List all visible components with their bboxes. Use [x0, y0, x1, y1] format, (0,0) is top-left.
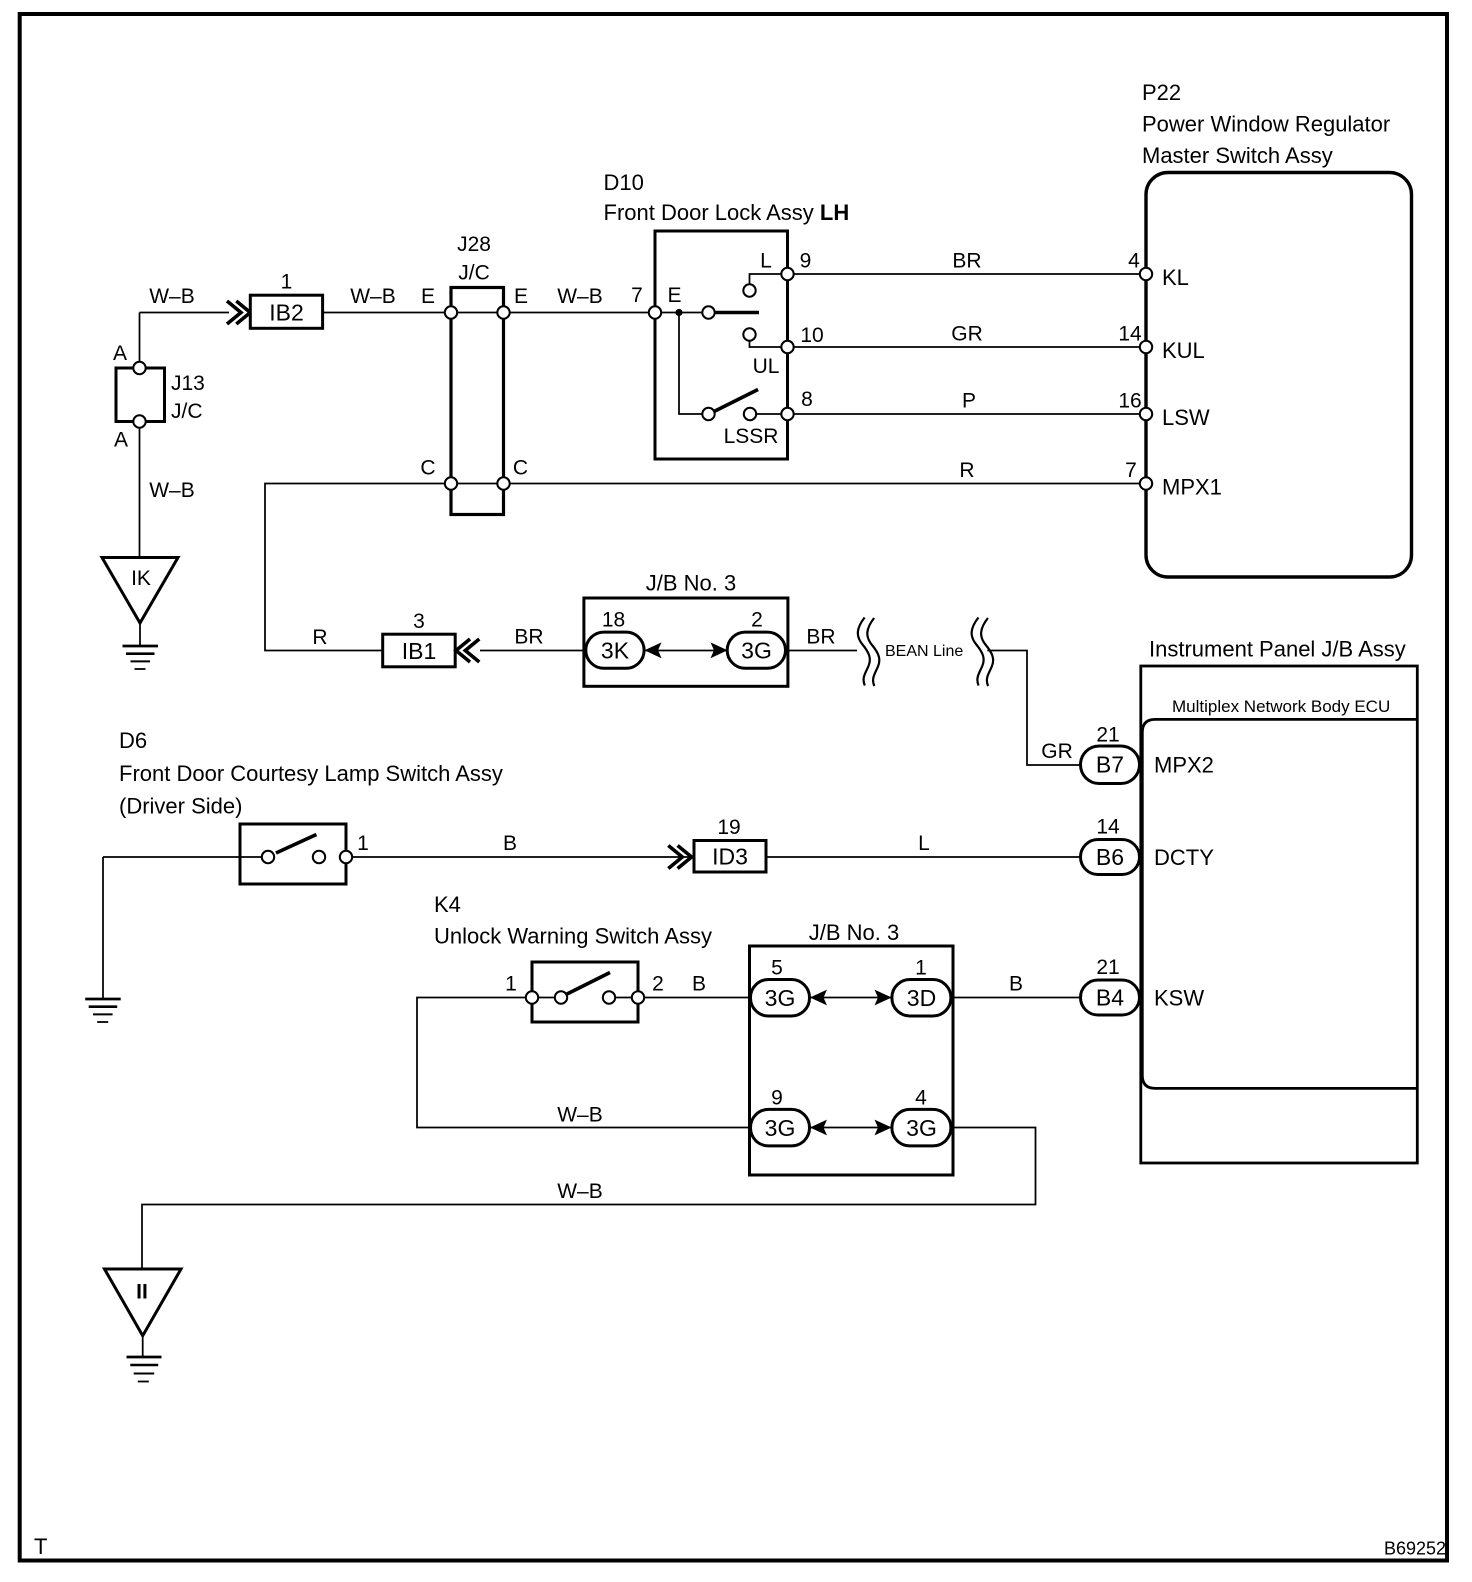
wire between 3K and 3G ovals — [644, 650, 729, 652]
wire L ID3 to B6 DCTY — [766, 856, 1081, 858]
node C left of J28 — [445, 477, 457, 489]
svg-text:2: 2 — [652, 973, 664, 996]
wire C to C through J28 — [451, 483, 504, 485]
terminal oval 3G pin 5 — [751, 980, 810, 1017]
connector ID3 box — [694, 841, 766, 873]
svg-text:E: E — [514, 285, 528, 308]
wire B K4 pin 2 to 3G — [638, 997, 751, 999]
wire E node to switch contact inside D10 — [655, 312, 702, 314]
switch contact right in K4 — [603, 991, 615, 1003]
svg-text:Unlock Warning Switch Assy: Unlock Warning Switch Assy — [434, 924, 712, 949]
svg-text:BR: BR — [514, 626, 543, 649]
component K4 Unlock Warning Switch box — [532, 962, 638, 1022]
wire B 3D to B4 KSW — [951, 997, 1081, 999]
svg-text:1: 1 — [357, 832, 369, 855]
terminal oval 3D pin 1 — [892, 980, 951, 1017]
svg-text:Instrument Panel J/B Assy: Instrument Panel J/B Assy — [1149, 637, 1406, 662]
wire J13 branch down — [139, 313, 141, 369]
svg-text:W–B: W–B — [557, 285, 603, 308]
connector arrow out of IB1 — [456, 639, 479, 662]
wire BR 3G to BEAN break — [786, 650, 858, 652]
ground earth symbol II — [127, 1357, 162, 1382]
svg-text:7: 7 — [631, 284, 643, 307]
wire IK triangle to earth — [139, 623, 141, 646]
wire D6 feed and ground drop — [103, 857, 262, 999]
svg-text:14: 14 — [1096, 816, 1120, 839]
svg-text:R: R — [312, 626, 327, 649]
node A top of J13 — [133, 362, 145, 374]
svg-text:MPX2: MPX2 — [1154, 753, 1214, 778]
node C right of J28 — [497, 477, 509, 489]
connector IB1 box — [383, 634, 456, 667]
svg-text:(Driver Side): (Driver Side) — [119, 794, 242, 819]
node MPX1 on P22 — [1140, 477, 1152, 489]
svg-text:1: 1 — [281, 271, 293, 294]
svg-text:Front Door Lock Assy LH: Front Door Lock Assy LH — [604, 200, 850, 225]
svg-text:21: 21 — [1096, 956, 1119, 979]
svg-text:J/B No. 3: J/B No. 3 — [809, 920, 899, 945]
wire W-B lower 3G to ground II — [142, 1128, 1036, 1270]
svg-text:BR: BR — [952, 250, 981, 273]
svg-text:16: 16 — [1118, 390, 1141, 413]
svg-text:D6: D6 — [119, 728, 147, 753]
svg-text:KSW: KSW — [1154, 986, 1204, 1011]
wire between 3G and 3D ovals — [809, 997, 892, 999]
connector arrow into IB2 — [227, 301, 250, 324]
svg-text:3: 3 — [413, 610, 425, 633]
arrowhead into 3G pin 5 — [810, 990, 827, 1006]
switch LSSR right contact — [744, 408, 756, 420]
wire P pin 8 to P22 LSW — [788, 413, 1147, 415]
switch common contact in D10 — [702, 306, 714, 318]
node pin 7 on D10 — [649, 306, 661, 318]
terminal oval 3G pin 9 — [751, 1109, 810, 1146]
svg-text:BEAN Line: BEAN Line — [885, 643, 963, 660]
svg-text:3G: 3G — [741, 638, 772, 664]
svg-text:IK: IK — [131, 567, 151, 590]
svg-text:GR: GR — [1041, 740, 1073, 763]
svg-text:BR: BR — [806, 626, 835, 649]
svg-text:D10: D10 — [604, 170, 644, 195]
svg-text:8: 8 — [801, 388, 813, 411]
switch contact left in K4 — [555, 991, 567, 1003]
ground triangle II — [105, 1269, 182, 1336]
node pin 9 on D10 — [781, 268, 793, 280]
wire C branch left and down to IB1 — [265, 484, 451, 651]
terminal oval 3G pin 2 — [727, 632, 785, 668]
svg-text:9: 9 — [771, 1087, 783, 1110]
svg-text:4: 4 — [1128, 250, 1140, 273]
arrowhead into 3G — [711, 642, 728, 658]
component J/B No. 3 upper box — [584, 598, 788, 686]
switch contact right in D6 — [313, 851, 325, 863]
wire D6 pin 1 to ID3 — [346, 856, 694, 858]
switch LSSR blade — [714, 390, 758, 412]
terminal oval B7 pin 21 — [1081, 746, 1140, 784]
svg-text:9: 9 — [800, 250, 812, 273]
svg-text:P: P — [962, 390, 976, 413]
svg-text:W–B: W–B — [350, 285, 396, 308]
svg-text:II: II — [136, 1281, 148, 1304]
ground triangle IK — [102, 558, 178, 624]
terminal oval 3K pin 18 — [586, 632, 644, 668]
svg-text:C: C — [513, 457, 528, 480]
svg-text:1: 1 — [915, 957, 927, 980]
switch blade L/UL in D10 — [715, 311, 759, 315]
svg-text:A: A — [114, 429, 128, 452]
wire BEAN line to B7 MPX2 — [987, 651, 1080, 766]
svg-text:Multiplex Network Body ECU: Multiplex Network Body ECU — [1172, 697, 1390, 716]
svg-text:B4: B4 — [1096, 985, 1124, 1011]
junction connector J28 J/C box — [451, 288, 504, 515]
svg-text:J13: J13 — [171, 372, 205, 395]
svg-text:P22: P22 — [1142, 80, 1181, 105]
node pin 10 on D10 — [781, 341, 793, 353]
switch blade in K4 — [567, 973, 610, 995]
terminal oval B4 pin 21 — [1081, 980, 1140, 1015]
ground earth symbol D6 — [85, 999, 121, 1022]
terminal oval 3G pin 4 — [892, 1109, 951, 1146]
svg-text:KL: KL — [1162, 265, 1189, 290]
wire BR IB1 arrows to 3K — [480, 650, 586, 652]
svg-text:B: B — [1009, 973, 1023, 996]
arrowhead into 3G pin 9 — [810, 1120, 827, 1136]
svg-text:3G: 3G — [765, 985, 796, 1011]
svg-text:C: C — [420, 457, 435, 480]
connector IB2 box — [250, 295, 322, 328]
connector arrow into ID3 — [668, 846, 691, 869]
svg-text:3G: 3G — [906, 1115, 937, 1141]
node A bottom of J13 — [133, 415, 145, 427]
svg-text:J/B No. 3: J/B No. 3 — [646, 571, 736, 596]
svg-text:19: 19 — [717, 816, 740, 839]
svg-text:UL: UL — [753, 355, 780, 378]
component D10 Front Door Lock Assy LH box — [655, 231, 788, 459]
node E right of J28 — [497, 306, 509, 318]
component Multiplex Network Body ECU inner box — [1142, 719, 1417, 1088]
component J/B No. 3 lower box — [750, 946, 954, 1175]
switch contact UL in D10 — [743, 328, 755, 340]
svg-text:A: A — [113, 342, 127, 365]
svg-text:LSW: LSW — [1162, 405, 1210, 430]
wire inside K4 box — [538, 997, 632, 999]
switch contact left in D6 — [262, 851, 274, 863]
svg-text:J/C: J/C — [171, 400, 203, 423]
svg-text:E: E — [667, 284, 681, 307]
wire BR pin 9 to P22 KL — [788, 273, 1147, 275]
svg-text:Master Switch Assy: Master Switch Assy — [1142, 143, 1333, 168]
svg-text:Front Door Courtesy Lamp Switc: Front Door Courtesy Lamp Switch Assy — [119, 761, 503, 786]
svg-text:2: 2 — [751, 609, 763, 632]
svg-text:B69252: B69252 — [1384, 1539, 1446, 1559]
node pin 1 on K4 — [526, 991, 538, 1003]
wire contact L up to pin 9 — [750, 274, 788, 284]
connector P22 Power Window Regulator Master Switch Assy box — [1146, 173, 1412, 578]
svg-text:21: 21 — [1096, 724, 1119, 747]
svg-text:4: 4 — [915, 1087, 927, 1110]
svg-text:T: T — [34, 1534, 47, 1559]
svg-text:B: B — [692, 973, 706, 996]
wire K4 pin 1 to lower 3G and W-B run — [417, 998, 751, 1128]
svg-text:W–B: W–B — [149, 479, 195, 502]
arrowhead into 3D pin 1 — [875, 990, 892, 1006]
wire between lower 3G and 3G ovals — [809, 1127, 892, 1129]
svg-text:Power Window Regulator: Power Window Regulator — [1142, 112, 1390, 137]
svg-text:B: B — [503, 832, 517, 855]
wire W-B from arrow to IB2 and J13 drop — [140, 312, 230, 314]
svg-text:IB2: IB2 — [269, 300, 304, 326]
svg-text:W–B: W–B — [149, 285, 195, 308]
junction connector J13 J/C box — [116, 368, 165, 422]
ground earth symbol IK — [123, 646, 159, 669]
svg-text:ID3: ID3 — [712, 844, 748, 870]
svg-text:KUL: KUL — [1162, 338, 1205, 363]
component D6 Front Door Courtesy Lamp Switch box — [240, 824, 346, 884]
node pin 8 on D10 — [781, 408, 793, 420]
node pin 2 on K4 — [632, 991, 644, 1003]
wire II triangle to earth — [142, 1336, 144, 1357]
wire GR pin 10 to P22 KUL — [788, 346, 1147, 348]
node KL on P22 — [1140, 268, 1152, 280]
svg-text:J/C: J/C — [458, 262, 490, 285]
svg-text:3K: 3K — [601, 638, 630, 664]
switch LSSR left contact — [702, 408, 714, 420]
terminal oval B6 pin 14 — [1081, 840, 1140, 875]
svg-text:L: L — [760, 250, 772, 273]
svg-text:B7: B7 — [1096, 752, 1124, 778]
svg-text:14: 14 — [1118, 323, 1142, 346]
svg-text:GR: GR — [951, 323, 983, 346]
arrowhead into 3G pin 4 — [875, 1120, 892, 1136]
svg-text:E: E — [421, 285, 435, 308]
svg-text:W–B: W–B — [557, 1104, 603, 1127]
arrowhead into 3K — [645, 642, 662, 658]
wire W-B IB2 to J28 E — [323, 312, 451, 314]
svg-text:L: L — [918, 832, 930, 855]
svg-text:1: 1 — [505, 973, 517, 996]
component Instrument Panel J/B Assy box — [1141, 666, 1418, 1163]
wire R J28 C to P22 MPX1 — [504, 483, 1147, 485]
BEAN line break squiggle right — [972, 618, 994, 687]
svg-text:B6: B6 — [1096, 844, 1124, 870]
node KUL on P22 — [1140, 341, 1152, 353]
svg-text:3D: 3D — [907, 985, 936, 1011]
wire E to E through J28 — [451, 312, 504, 314]
svg-text:J28: J28 — [457, 233, 491, 256]
svg-text:IB1: IB1 — [402, 638, 437, 664]
wire E junction down to LSSR switch — [679, 313, 702, 415]
junction dot node E in D10 — [675, 309, 682, 316]
wire contact UL down to pin 10 — [750, 341, 788, 347]
wire W-B J28 to D10 pin 7 — [504, 312, 656, 314]
svg-text:LSSR: LSSR — [724, 425, 779, 448]
svg-text:W–B: W–B — [557, 1180, 603, 1203]
svg-text:3G: 3G — [765, 1115, 796, 1141]
switch blade in D6 — [276, 835, 316, 854]
svg-text:K4: K4 — [434, 892, 461, 917]
svg-text:7: 7 — [1125, 459, 1137, 482]
node pin 1 on D6 — [340, 851, 352, 863]
svg-text:MPX1: MPX1 — [1162, 475, 1222, 500]
node LSW on P22 — [1140, 408, 1152, 420]
svg-text:10: 10 — [800, 324, 823, 347]
wire LSSR contact to pin 8 — [756, 413, 787, 415]
BEAN line break squiggle left — [858, 618, 880, 687]
svg-text:R: R — [959, 459, 974, 482]
wire W-B J13 to ground IK — [139, 422, 141, 558]
switch contact L in D10 — [743, 284, 755, 296]
svg-text:5: 5 — [771, 957, 783, 980]
node E left of J28 — [445, 306, 457, 318]
svg-text:DCTY: DCTY — [1154, 845, 1214, 870]
svg-text:18: 18 — [602, 609, 625, 632]
